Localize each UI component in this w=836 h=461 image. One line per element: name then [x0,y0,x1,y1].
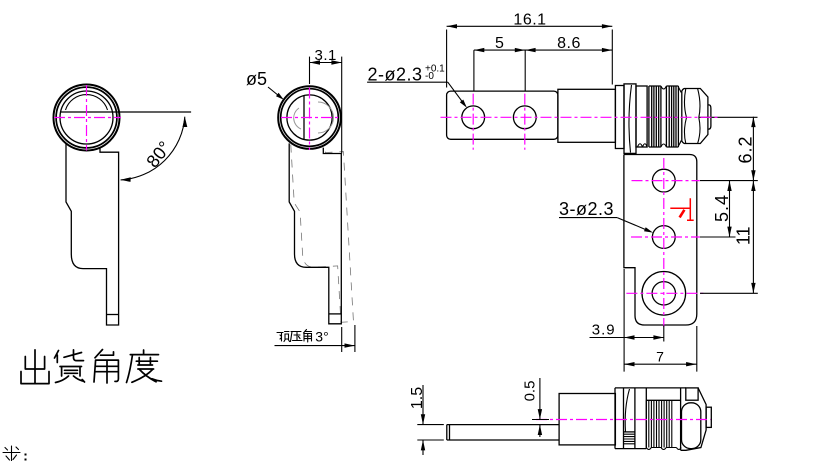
svg-text:5: 5 [495,35,504,52]
svg-text:5.4: 5.4 [712,194,732,222]
svg-text:2-ø2.3: 2-ø2.3 [368,64,423,84]
svg-text:8.6: 8.6 [557,35,581,52]
svg-text:3-ø2.3: 3-ø2.3 [559,199,614,219]
svg-text:0.5: 0.5 [521,381,538,402]
svg-text:16.1: 16.1 [513,12,546,29]
svg-text:3°: 3° [315,329,328,345]
svg-text:7: 7 [656,349,664,365]
svg-text:6.2: 6.2 [735,135,755,163]
svg-text:11: 11 [734,226,754,245]
svg-text:1.5: 1.5 [409,387,426,409]
svg-text:3.1: 3.1 [315,47,337,64]
svg-text:-0: -0 [425,71,434,82]
svg-text:ø5: ø5 [246,69,267,89]
svg-text:3.9: 3.9 [592,322,616,339]
